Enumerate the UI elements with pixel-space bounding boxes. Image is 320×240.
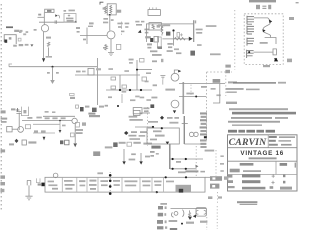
wire tank top <box>171 208 207 210</box>
MFG header word5 <box>266 130 275 133</box>
wire tone row <box>75 74 140 76</box>
thick line pi <box>183 116 185 144</box>
title divider 1 <box>228 147 298 149</box>
dotted feed column <box>120 22 122 35</box>
wire stub down <box>172 31 174 45</box>
bias cluster top label2 <box>69 10 75 12</box>
tank body <box>196 208 206 216</box>
label near jack <box>9 143 14 145</box>
diode D1 <box>55 14 58 16</box>
label ch r5 <box>61 117 66 119</box>
label mid c <box>140 97 145 99</box>
label A3 dark blob <box>157 46 162 49</box>
connector bar c10 <box>200 146 206 148</box>
diamond pi <box>160 116 164 120</box>
thick vertical ps <box>169 144 171 169</box>
wire R6 down <box>47 47 49 56</box>
resistor R6 <box>47 42 49 47</box>
eq mark <box>38 183 41 185</box>
label rev right <box>143 107 149 109</box>
note row B <box>228 121 280 123</box>
capacitor C3 ticks <box>55 20 57 23</box>
arrow bias <box>166 142 170 145</box>
wire grid stub <box>162 80 164 85</box>
title divider 2 <box>228 160 298 162</box>
label right cluster <box>210 53 221 55</box>
label near dotted box <box>201 86 206 88</box>
speck far a <box>220 155 223 157</box>
speck band a <box>152 60 157 62</box>
label ch r2 <box>36 117 41 119</box>
box ch right <box>75 122 79 127</box>
label mid b <box>130 99 135 101</box>
dashed border horizontal <box>207 71 232 73</box>
wire main bus <box>146 24 193 42</box>
node ps1 <box>172 158 174 160</box>
label bus right <box>206 25 217 27</box>
label 12AX7 ch <box>28 141 36 143</box>
bias cluster row2 <box>67 20 74 22</box>
jack J2 plus <box>16 108 20 112</box>
capacitor C6 <box>116 44 120 49</box>
label R1 <box>34 29 37 31</box>
divider 8 <box>163 177 165 192</box>
label rev low <box>129 159 136 161</box>
transistor Q1 arrow <box>138 30 142 33</box>
divider 3 <box>86 177 88 192</box>
note line 4 <box>226 102 237 104</box>
relay box K1 <box>148 10 160 16</box>
ps text s1a <box>48 181 54 183</box>
wire to speaker jacks <box>205 176 210 178</box>
above-box marks <box>97 172 103 174</box>
cap v3a <box>70 133 74 137</box>
margin label row3 <box>0 189 4 192</box>
divider 2 <box>76 177 78 192</box>
capacitor mains <box>27 180 31 185</box>
resistor R11 horizontal <box>174 38 185 40</box>
transformer T1 box <box>107 4 116 15</box>
capacitor C5 <box>70 94 75 96</box>
MFG header word2 <box>238 130 245 133</box>
wire hook start <box>9 64 12 67</box>
label ps left c <box>156 153 159 155</box>
resistor R10 vertical <box>161 26 163 36</box>
wire box bottom stub <box>130 191 157 193</box>
wire fs top <box>254 18 270 21</box>
resistor left stack <box>76 27 80 29</box>
wire trem row1 <box>179 83 225 85</box>
label ps b <box>178 171 186 173</box>
diamond ground <box>15 139 19 143</box>
info divider vertical <box>275 161 277 174</box>
label pi row <box>148 121 158 123</box>
wire cathode V1A <box>43 32 45 58</box>
box R network <box>149 23 161 30</box>
transistor arrow fs1 <box>269 20 272 24</box>
connector bar c2 <box>201 116 207 118</box>
ot dark core <box>179 189 183 193</box>
cap left branch <box>16 111 21 113</box>
label A3 far right <box>197 44 202 46</box>
tube V2B <box>171 100 179 108</box>
info left brace a <box>228 175 232 178</box>
info plus b <box>271 181 274 184</box>
label R8 <box>103 47 105 49</box>
label mid cluster <box>167 43 172 45</box>
note line 5 <box>229 108 288 110</box>
speaker jack bar 2 <box>210 184 219 189</box>
label under <box>119 142 126 144</box>
info left brace b <box>228 180 233 183</box>
tone stack vertical 1 <box>119 75 121 90</box>
arrow feed down <box>42 58 45 62</box>
info pn bracket <box>295 163 296 168</box>
cluster caps ch <box>34 130 38 132</box>
label ch r1 <box>27 117 32 119</box>
connector comb P3 <box>247 38 254 46</box>
note line 2 <box>226 88 244 90</box>
resistor tone a <box>111 77 116 80</box>
junction top dot2 <box>185 176 187 178</box>
SEC-CHANNEL <box>1 107 155 165</box>
dotted junction column <box>109 172 111 196</box>
label rev low4 <box>105 146 113 148</box>
speck tone z <box>135 96 139 98</box>
dotted jack column <box>216 192 218 204</box>
wire rev <box>135 126 153 128</box>
divider 5 <box>121 177 123 192</box>
transformer T1 primary winding <box>105 6 107 13</box>
LED symbol <box>273 49 276 55</box>
ground mains <box>25 196 32 200</box>
speck tone w <box>108 68 113 70</box>
SEC-MIDLEFT <box>9 58 152 117</box>
capacitor C5b <box>70 97 75 99</box>
cap dark spot <box>190 51 195 56</box>
capacitor C2 <box>45 9 54 12</box>
bias cluster plus <box>68 14 70 16</box>
label ps left b <box>150 155 154 157</box>
label pair far <box>135 21 139 23</box>
label left of ground <box>47 72 50 74</box>
tube V1A <box>41 25 48 32</box>
ps text s2a <box>64 180 73 182</box>
heater circle 2 <box>194 132 198 136</box>
svg-text:CARVIN: CARVIN <box>229 137 268 148</box>
jack J1 tip <box>9 37 12 39</box>
junction dot b4 <box>109 192 112 195</box>
label left stack <box>77 31 80 33</box>
node upper <box>136 69 138 71</box>
jack box ch <box>22 140 26 145</box>
info divider h2 <box>228 173 298 175</box>
label mid a <box>108 96 112 98</box>
ground V2A <box>160 76 165 79</box>
ps text s6b <box>114 184 120 186</box>
header text t <box>268 5 271 9</box>
label right of arrow <box>196 29 203 31</box>
title right r3b <box>281 144 292 146</box>
speaker jack hole 1 <box>212 177 215 179</box>
wire junction down <box>52 67 54 80</box>
ps text s7a <box>124 180 137 182</box>
node rev <box>152 126 154 128</box>
label eb1 <box>225 65 230 68</box>
ps text s9b <box>155 184 162 186</box>
driver curve <box>171 212 173 217</box>
label ch spk c <box>62 125 66 127</box>
connector bar c5 <box>200 126 207 128</box>
label above tank <box>208 196 212 199</box>
label B+ left2 <box>103 22 108 24</box>
title right r2a <box>269 140 276 142</box>
label under T1 <box>117 11 120 13</box>
jack J2 marks <box>11 108 15 110</box>
wire V2A plate hook <box>174 70 178 73</box>
tick pi cross <box>182 123 188 125</box>
wire pi bottom <box>184 143 204 145</box>
node mains dark <box>41 183 45 187</box>
label B+ left <box>103 18 108 20</box>
label rev mid2 <box>140 131 147 133</box>
header text eq2 <box>262 8 266 9</box>
tick above bus <box>195 20 196 23</box>
plug mark <box>36 178 40 182</box>
label pair far2 <box>141 21 144 23</box>
wire preamp row <box>162 38 191 40</box>
dotted tank col1 <box>206 217 208 230</box>
label rev mid3 <box>128 135 136 137</box>
ground jack <box>30 44 33 46</box>
wire fs curve <box>263 23 271 37</box>
capacitor ch <box>25 125 30 129</box>
jack J2 body <box>21 107 28 116</box>
wire mid bottom <box>140 112 150 114</box>
label 0.5 input <box>6 26 13 28</box>
label under pot2 <box>147 47 151 49</box>
info small block b <box>283 181 285 184</box>
cluster caps ch2 <box>41 130 46 132</box>
ps text s10a <box>166 181 174 183</box>
label tone b2 <box>122 91 127 93</box>
label inside box <box>157 25 160 28</box>
box tone right <box>142 77 146 81</box>
label left of box2 <box>82 71 86 73</box>
transformer T1 secondary winding <box>110 5 112 13</box>
label jack low3 <box>25 44 29 46</box>
label A3 row a <box>150 50 157 52</box>
wire bus drop <box>193 20 195 42</box>
connector dark pin <box>204 136 207 138</box>
junction dot b1 <box>109 174 112 177</box>
label rev low2 <box>131 153 136 155</box>
connector comb P4 <box>247 50 254 58</box>
wire upper right <box>137 69 152 71</box>
connector bar c1 <box>200 112 207 114</box>
wire branch vertical <box>86 28 88 45</box>
label left of box <box>76 71 81 73</box>
SEC-TOPRIGHT <box>145 0 298 70</box>
ps text s2b <box>65 184 75 186</box>
wire rev v2 <box>140 153 142 161</box>
resistor tank <box>189 210 191 217</box>
label T1 right <box>117 10 121 13</box>
label bias a <box>153 130 162 132</box>
dash ch right2 <box>76 132 83 134</box>
label tank c <box>200 221 207 223</box>
bias cluster row1 <box>66 18 73 20</box>
label mid cluster2 <box>168 46 172 48</box>
wire grid V1B <box>80 35 107 37</box>
heater circle 1 <box>189 132 193 136</box>
above-box label right <box>185 170 198 172</box>
wire opto to tube <box>12 128 18 130</box>
capacitor tone a <box>111 86 116 89</box>
label under pot <box>147 43 152 45</box>
info center text a <box>242 174 260 177</box>
info center text b <box>242 180 260 183</box>
pcb box <box>45 177 205 192</box>
divider 7 <box>151 177 153 192</box>
wire ch lower <box>33 123 60 125</box>
info row drawn <box>240 163 254 166</box>
speck far c <box>220 170 223 172</box>
label ps right <box>205 150 215 152</box>
title right r2b <box>278 140 291 141</box>
wire upper branch <box>136 60 138 90</box>
cap rev2 <box>127 142 131 146</box>
label rev rows <box>129 116 138 118</box>
opto box <box>7 127 12 132</box>
tube V1B <box>107 31 115 39</box>
ground arrow <box>50 80 55 84</box>
wire T1 down <box>109 15 111 31</box>
node preamp <box>172 29 174 31</box>
rca row 2 tick <box>164 213 166 216</box>
ps text s6a <box>113 180 120 182</box>
rca row 4 tick <box>165 226 167 228</box>
bias box <box>147 128 179 144</box>
svg-text:VINTAGE 16: VINTAGE 16 <box>240 150 283 157</box>
dark sq rev <box>113 142 117 147</box>
note line 1 tail <box>278 82 286 84</box>
wire ch mid <box>33 132 55 134</box>
title right r1a <box>269 136 277 138</box>
ps text s8a <box>142 180 151 182</box>
rca row 3 <box>157 220 163 224</box>
footswitch dashed box <box>244 14 283 65</box>
label row mid <box>118 26 122 28</box>
tube V3B <box>18 126 24 132</box>
info left brace c <box>228 186 235 188</box>
divider 6 <box>139 177 141 192</box>
ps text s8b <box>143 185 151 187</box>
jack J2 tip <box>23 110 26 113</box>
note row C <box>232 124 262 126</box>
bias cluster box <box>64 14 76 23</box>
junction dot b3 <box>109 185 112 188</box>
label rev rows2 <box>129 119 142 121</box>
pot wiper dark <box>150 38 153 42</box>
arrow ps <box>195 165 198 168</box>
label right of arrow2 <box>196 32 202 34</box>
node ps4 <box>185 168 187 170</box>
note line 1 <box>228 81 237 83</box>
title right r3a <box>269 144 278 146</box>
header bar <box>249 0 276 2</box>
label tank bottom <box>170 228 177 230</box>
SEC-MIDRIGHT <box>150 58 296 142</box>
label row c <box>143 143 152 145</box>
SEC-REVERB <box>157 196 222 230</box>
label pi row2 <box>169 122 178 124</box>
label pot right <box>85 106 89 108</box>
label A3 row c <box>174 48 179 50</box>
info m mark <box>270 186 274 189</box>
wire ch main <box>22 120 72 122</box>
tank coils <box>196 211 206 215</box>
info row 2 <box>243 170 261 172</box>
capacitor C9 <box>177 33 180 37</box>
dotted rev column <box>146 107 148 146</box>
ps text s4c <box>90 188 96 190</box>
diamond rev <box>124 131 128 135</box>
info right paren <box>280 187 292 190</box>
connector bar c8 <box>200 139 207 141</box>
label above wire <box>89 22 94 24</box>
node ps2 <box>185 158 187 160</box>
note line 6 underline <box>232 112 296 115</box>
label A3 row b <box>152 54 162 56</box>
driver circle <box>174 212 178 216</box>
diode arrow right <box>189 37 193 41</box>
label right edge <box>287 59 292 63</box>
label above relay <box>158 25 165 27</box>
label left low <box>151 97 157 99</box>
label right margin <box>289 17 294 20</box>
dotted far column <box>215 150 217 176</box>
label row low <box>121 31 124 33</box>
label ch r3 <box>45 117 50 119</box>
speck tone x <box>124 70 129 72</box>
speck far b <box>220 163 224 165</box>
ps text s9a <box>154 181 162 183</box>
info plus <box>272 174 275 177</box>
label rev right2 <box>144 110 149 112</box>
ps text s7b <box>125 185 136 187</box>
label T1 left <box>103 7 106 9</box>
label rev mid <box>131 131 137 133</box>
connector bar c3 <box>200 119 207 121</box>
label far left dash <box>88 26 93 27</box>
node T1 bottom <box>109 14 111 16</box>
wire tone cross <box>106 89 152 91</box>
ground V1B <box>108 52 114 55</box>
rca row 4 <box>157 226 163 229</box>
MFG header word3 <box>246 130 255 133</box>
label near spot <box>176 52 181 54</box>
label R5 <box>46 37 51 39</box>
label R10 <box>164 24 171 26</box>
label below box <box>263 65 270 67</box>
label pi top2 <box>174 117 179 119</box>
label top right pair <box>129 59 134 61</box>
label grid stopper <box>19 31 22 33</box>
grey blob <box>93 151 100 156</box>
node junction <box>52 66 54 68</box>
capacitor C2 fill <box>47 10 52 12</box>
